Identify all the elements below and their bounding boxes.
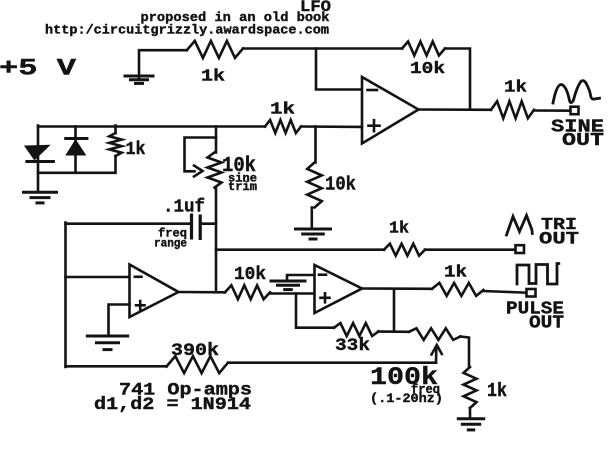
wire left loop vertical	[64, 223, 67, 368]
wire U2 plus to ground	[109, 305, 130, 336]
wire ground to R 1k top	[139, 50, 187, 79]
wire cap left	[66, 222, 191, 225]
svg-text:+5 V: +5 V	[0, 56, 76, 82]
pot wiper loop	[185, 138, 217, 172]
potentiometer 10k sine trim	[208, 153, 222, 188]
wire U1 plus junction down	[314, 127, 317, 163]
wire U2 output	[179, 291, 226, 294]
svg-text:range: range	[154, 237, 187, 251]
resistor 10k feedback U1	[402, 42, 445, 56]
ground under 10k	[294, 228, 332, 231]
U1 plus sign	[369, 124, 380, 127]
svg-text:10k: 10k	[325, 174, 356, 196]
100k wiper arrow	[435, 349, 438, 363]
wire to ground bottom right	[469, 408, 472, 418]
wire left vertical d1	[37, 126, 40, 193]
svg-text:OUT: OUT	[529, 314, 564, 334]
wire U3 minus to ground	[287, 275, 315, 280]
svg-text:1k: 1k	[270, 101, 295, 120]
wire node A rail	[243, 47, 402, 50]
wire 100k right elbow down	[461, 337, 470, 368]
wire 10k to U3 plus input	[270, 292, 315, 295]
wire d2 vertical	[74, 127, 77, 173]
resistor 390k	[167, 356, 229, 373]
terminal SINE OUT	[571, 107, 579, 115]
svg-text:10k: 10k	[234, 264, 266, 285]
svg-text:1k: 1k	[487, 380, 507, 402]
svg-text:http:/circuitgrizzly.awardspac: http:/circuitgrizzly.awardspace.com	[45, 23, 329, 38]
resistor 1k bottom right	[464, 367, 477, 408]
wire U3 output	[362, 287, 432, 290]
wire U3 output down to feedback	[393, 289, 396, 332]
wire cap right to node	[201, 222, 216, 225]
U2 plus sign	[136, 304, 145, 307]
wire to ground	[310, 208, 313, 229]
ground bottom right	[457, 417, 485, 420]
svg-text:33k: 33k	[335, 336, 370, 356]
capacitor C1 right plate	[199, 215, 202, 241]
wire node A to U1 inverting input	[316, 49, 362, 90]
wire feedback to U1 output	[445, 49, 470, 110]
ground top-left	[124, 75, 155, 78]
resistor 10k U2 to U3	[225, 285, 270, 299]
svg-text:trim: trim	[228, 181, 257, 194]
svg-text:OUT: OUT	[539, 230, 579, 250]
wire to tri terminal	[425, 248, 516, 251]
svg-text:1k: 1k	[504, 79, 527, 98]
sine wave symbol	[553, 81, 600, 103]
svg-text:OUT: OUT	[562, 131, 604, 151]
wire tri out	[216, 248, 384, 251]
wire U3 plus down to 33k	[296, 294, 334, 328]
wire 390k left	[66, 365, 167, 368]
wire bottom of diode pair	[38, 156, 116, 173]
diode d1 (anode top, pointing down)	[25, 146, 48, 160]
wire pot bottom down to integrator node	[215, 188, 218, 293]
wire rail to pot top	[215, 127, 218, 153]
svg-text:1k: 1k	[444, 264, 467, 283]
pot wiper arrow	[194, 166, 203, 177]
wire U1 output	[419, 108, 492, 111]
terminal PULSE OUT	[527, 289, 536, 297]
wire junction to U1 plus input	[301, 125, 362, 128]
U1 minus sign	[368, 89, 378, 92]
wire to sine terminal	[534, 109, 571, 112]
resistor 1k diode parallel	[114, 126, 117, 134]
ground U3 minus	[270, 280, 307, 283]
capacitor C1 left plate	[190, 214, 193, 240]
U3 minus sign	[319, 273, 326, 276]
svg-text:d1,d2 = 1N914: d1,d2 = 1N914	[94, 395, 251, 415]
resistor 1k tri out	[384, 244, 425, 256]
wire wiper to 390k	[228, 361, 436, 364]
resistor 10k to ground	[307, 163, 322, 208]
op-amp U3	[315, 265, 363, 313]
resistor 1k top	[187, 41, 243, 58]
wire 33k to 100k	[379, 330, 410, 333]
rail diodes to U1 + input	[38, 125, 265, 128]
ground U2 plus	[86, 335, 129, 338]
svg-text:390k: 390k	[171, 341, 219, 361]
square wave symbol	[517, 264, 559, 285]
terminal TRI OUT	[516, 245, 525, 253]
resistor 1k vertical	[109, 133, 121, 156]
U2 minus sign	[135, 275, 142, 278]
svg-text:1k: 1k	[201, 67, 225, 86]
op-amp U2	[130, 265, 179, 318]
triangle wave symbol	[507, 216, 533, 236]
resistor 1k to U1 plus	[265, 120, 301, 133]
svg-text:(.1-20hz): (.1-20hz)	[370, 391, 443, 406]
potentiometer 100k freq	[409, 328, 461, 340]
svg-text:1k: 1k	[126, 139, 146, 160]
wire to pulse terminal	[484, 291, 527, 293]
U3 plus sign	[321, 296, 330, 299]
resistor 1k sine out	[491, 101, 534, 118]
resistor 33k	[334, 323, 379, 336]
diode d2 (pointing up, bar on top)	[64, 137, 88, 140]
resistor 1k pulse	[432, 283, 484, 296]
op-amp U1	[362, 77, 419, 144]
ground diodes	[22, 191, 58, 194]
svg-text:1k: 1k	[389, 220, 409, 239]
wire U2 inverting input	[66, 276, 130, 279]
svg-text:10k: 10k	[410, 59, 445, 78]
